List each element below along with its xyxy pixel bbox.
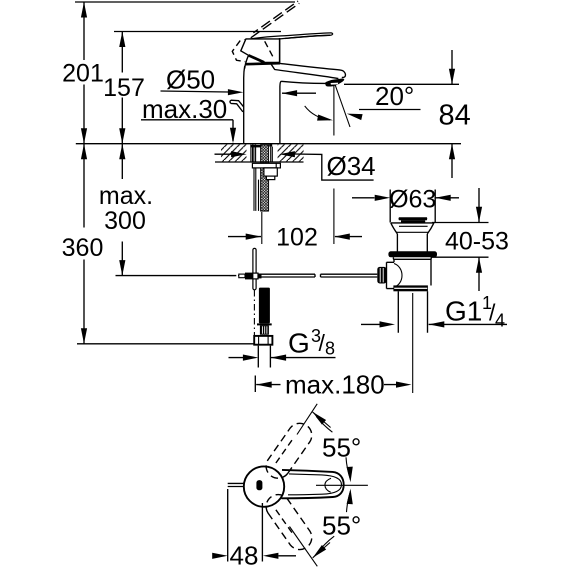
pop-up rod horizontal tube xyxy=(262,274,378,277)
supply hose upper (dark) xyxy=(259,288,270,324)
55 deg ray down xyxy=(290,527,318,567)
dimension max.30 leader xyxy=(141,120,233,141)
drain tailpipe xyxy=(398,291,427,333)
threaded rod (knurled) xyxy=(261,145,269,211)
svg-text:Ø63: Ø63 xyxy=(389,186,436,214)
drain side port xyxy=(387,262,395,288)
dimension 102 xyxy=(228,236,362,238)
svg-text:max.: max. xyxy=(99,182,153,210)
drain body sides xyxy=(394,259,431,285)
svg-text:300: 300 xyxy=(104,207,146,235)
plan lever outline xyxy=(282,470,344,498)
drain upper cylinder sides xyxy=(397,234,427,252)
20 degree slant line xyxy=(335,85,350,128)
plan lever inner lines xyxy=(288,474,342,495)
svg-text:Ø34: Ø34 xyxy=(327,151,376,181)
svg-text:20°: 20° xyxy=(375,81,414,111)
hose hex nut G3/8 xyxy=(254,336,272,345)
plan lever inner arc xyxy=(325,478,331,492)
svg-text:84: 84 xyxy=(439,100,471,132)
reference line lever top (157) xyxy=(114,31,281,33)
svg-text:55°: 55° xyxy=(322,511,361,541)
centerline dash-dot below rod xyxy=(253,290,255,336)
drain band below flange xyxy=(393,257,431,259)
svg-text:max.180: max.180 xyxy=(285,370,385,400)
drain neck lines xyxy=(396,226,429,232)
drain lower seal (dark) xyxy=(393,285,428,291)
hose end reference line (360 end) xyxy=(77,343,254,345)
dashed lever down 55 xyxy=(266,495,312,550)
svg-text:201: 201 xyxy=(62,60,104,88)
faucet lever blade xyxy=(246,33,333,42)
spout outlet aerator (dark) xyxy=(325,79,344,87)
drain plug cap (dark) xyxy=(399,217,428,220)
spout bevel line xyxy=(271,64,338,78)
svg-text:40-53: 40-53 xyxy=(445,228,509,256)
svg-text:102: 102 xyxy=(276,224,318,252)
dimension 40-53 xyxy=(431,223,489,258)
hose knurled fitting xyxy=(260,325,269,334)
dimension 48 xyxy=(228,489,263,562)
dimension Ø34 leader and label box xyxy=(215,154,374,180)
spout top edge xyxy=(280,63,346,77)
faucet body top bold line xyxy=(245,62,280,66)
dimension max.180 xyxy=(256,384,400,386)
svg-text:4: 4 xyxy=(495,311,505,331)
pop-up knob hook at rear xyxy=(230,100,244,112)
drain flange ring (dark) xyxy=(388,251,437,257)
dimension line 157/max300 vertical xyxy=(121,32,123,276)
svg-text:48: 48 xyxy=(230,541,259,568)
shank seal square right xyxy=(269,144,272,147)
drain neck curves xyxy=(391,223,434,234)
svg-text:157: 157 xyxy=(103,74,145,102)
svg-text:max.30: max.30 xyxy=(142,94,227,124)
drain flange top line xyxy=(391,222,434,224)
mounting plate xyxy=(252,163,280,168)
deck / counter top line xyxy=(76,143,461,145)
pop-up rod clamp connector xyxy=(239,274,245,278)
lever joint vertical xyxy=(279,38,281,62)
hose tube below nut xyxy=(258,346,270,368)
dashed lever up 55 xyxy=(266,423,312,478)
deck bottom line xyxy=(215,161,304,163)
svg-text:G1: G1 xyxy=(445,296,482,327)
spout outlet reference line (84) xyxy=(344,83,459,85)
angle arc lower xyxy=(316,491,350,554)
angle indicator arc xyxy=(305,106,330,120)
svg-text:Ø50: Ø50 xyxy=(166,65,215,95)
deck hatch left xyxy=(221,144,247,161)
dimension line 201/360 vertical xyxy=(83,2,85,344)
dimension Ø50 leader xyxy=(161,91,229,92)
deck hatch right xyxy=(278,144,304,161)
centerline dash-dot left of clamp xyxy=(230,275,239,277)
plan supply stub xyxy=(228,483,244,486)
plan centerline xyxy=(316,484,368,486)
svg-text:G: G xyxy=(288,328,310,359)
supply tubes below deck xyxy=(254,168,259,211)
svg-text:360: 360 xyxy=(62,234,104,262)
mounting nut xyxy=(264,168,277,176)
faucet body right edge xyxy=(279,87,281,144)
pop-up rod reference line (max300 end) xyxy=(116,275,237,277)
55 deg ray up xyxy=(297,404,317,435)
faucet body left edge xyxy=(245,56,249,69)
reference line top (open lever height) xyxy=(75,1,295,3)
drain rod knob (dark knurled) xyxy=(377,267,386,284)
shank hole tubes (in deck) xyxy=(251,145,272,163)
drain centerline extension xyxy=(412,293,414,393)
spout underside xyxy=(280,81,326,86)
outlet vertical reference / 102 extension xyxy=(333,86,335,244)
svg-text:8: 8 xyxy=(325,339,335,359)
drain port inner arc xyxy=(394,264,402,288)
faucet lever front face xyxy=(241,39,280,63)
svg-text:55°: 55° xyxy=(322,433,361,463)
pop-up rod vertical xyxy=(253,248,256,289)
plan body circle xyxy=(244,466,284,506)
shank seal dark band xyxy=(250,145,261,148)
dimension Ø63 xyxy=(352,197,459,199)
hose fitting flange xyxy=(257,323,272,325)
dimension 84 vertical xyxy=(451,50,453,178)
dashed raised lever lines xyxy=(251,3,299,38)
plan slot (dark) xyxy=(256,480,262,490)
angle arc upper xyxy=(316,416,350,479)
